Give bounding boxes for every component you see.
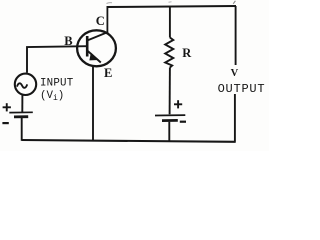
scan speck: [233, 1, 235, 4]
wire: [107, 6, 237, 7]
svg-text:C: C: [96, 14, 105, 28]
svg-text:(Vi): (Vi): [40, 90, 64, 103]
label +: [174, 100, 182, 108]
resistor R: [165, 7, 173, 114]
wire: [235, 6, 237, 65]
wire: [22, 140, 236, 142]
battery B2: [155, 115, 185, 121]
scan speck: [107, 2, 113, 5]
label -: [180, 121, 186, 123]
label -: [2, 122, 8, 124]
wire: [21, 118, 23, 141]
svg-text:V: V: [231, 68, 239, 79]
wire: [92, 66, 94, 141]
wire: [27, 46, 87, 73]
wire: [168, 122, 170, 141]
svg-text:OUTPUT: OUTPUT: [218, 82, 266, 96]
scan speck: [169, 1, 172, 3]
AC source: [15, 74, 36, 95]
svg-text:E: E: [104, 66, 112, 80]
wire: [21, 95, 23, 112]
battery B1: [9, 112, 33, 117]
wire: [234, 94, 236, 142]
svg-text:R: R: [182, 46, 192, 60]
svg-text:B: B: [64, 34, 72, 48]
label +: [3, 103, 11, 111]
transistor Q1: [77, 30, 116, 66]
wire: [106, 7, 108, 33]
svg-text:INPUT: INPUT: [40, 78, 74, 90]
